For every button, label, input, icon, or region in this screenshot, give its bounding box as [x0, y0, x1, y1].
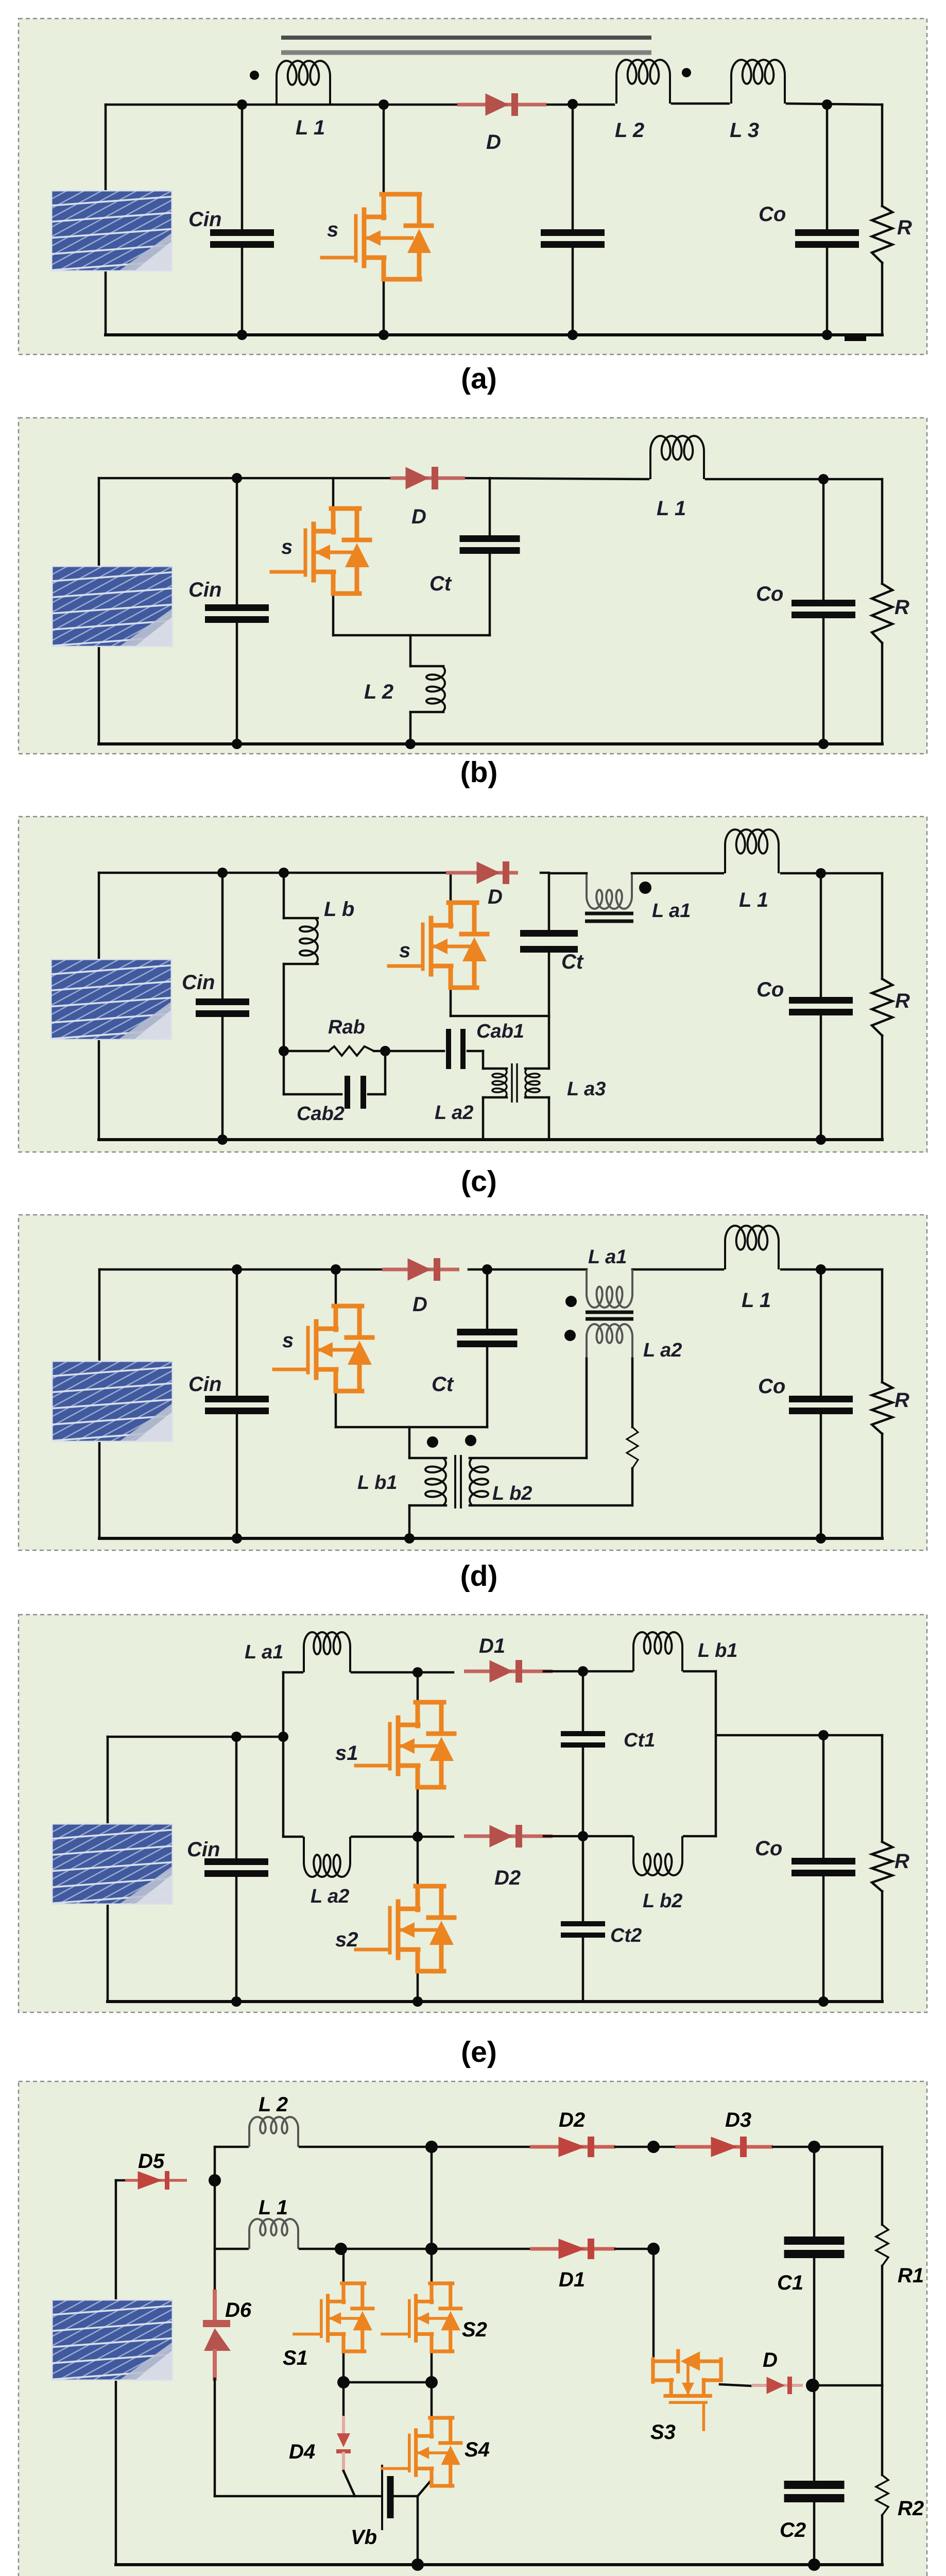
inductor Lb (c) — [300, 918, 318, 964]
wire right rail upper (a) — [881, 105, 884, 206]
wire La1-to-L1 (c) — [632, 872, 723, 875]
coupling dot Lb1 (d) — [427, 1436, 438, 1448]
inductor L3 (a) — [731, 60, 785, 104]
wire left rail (f) — [115, 2180, 117, 2565]
resistor R (b) — [872, 584, 892, 643]
node Co bottom (a) — [822, 330, 832, 340]
node D5 out (f) — [209, 2174, 221, 2187]
node Co top (a) — [822, 99, 832, 110]
wire output rail (e) — [716, 1734, 882, 1737]
diode D1 (e) — [464, 1670, 553, 1673]
node Rab right (c) — [380, 1046, 390, 1056]
wire mosfet source horizontal (c) — [451, 1015, 549, 1018]
node S2 top (f) — [425, 2243, 438, 2255]
transformer La2 leads (c) — [483, 1067, 507, 1070]
inductor La2 lead (e) — [283, 1836, 302, 1838]
wire La2-to-node (e) — [352, 1836, 453, 1838]
capacitor Ct1 (e) — [561, 1731, 605, 1736]
capacitor Co branch wires (d) — [820, 1269, 822, 1396]
svg-text:R: R — [895, 1389, 909, 1412]
wire L1-to-right (d) — [781, 1268, 882, 1271]
svg-text:s2: s2 — [335, 1928, 358, 1951]
svg-text:D4: D4 — [289, 2441, 315, 2463]
PV panel (b) — [0, 556, 354, 662]
svg-text:R: R — [895, 990, 910, 1012]
inductor L2 lead left (f) — [215, 2146, 248, 2148]
wire S2 drain vertical (f) — [431, 2147, 433, 2249]
svg-text:Co: Co — [759, 203, 786, 226]
svg-text:D2: D2 — [559, 2109, 585, 2131]
mosfet S (d) — [274, 1306, 372, 1391]
svg-text:L 1: L 1 — [259, 2196, 288, 2219]
PV panel (f) — [0, 2290, 354, 2396]
transformer Lb1 leads (d) — [408, 1427, 411, 1458]
mosfet S branch wires (a) — [383, 105, 385, 196]
svg-text:C1: C1 — [777, 2272, 803, 2294]
svg-text:Co: Co — [758, 1375, 785, 1398]
wire right rail top (f) — [881, 2147, 884, 2225]
svg-text:D3: D3 — [725, 2109, 751, 2131]
node L2 bottom (b) — [405, 739, 416, 749]
node Cin bottom (a) — [237, 330, 247, 340]
panel (b) background box — [19, 418, 927, 754]
capacitor Ct1 wires (e) — [582, 1671, 584, 1731]
wire right rail mid2 (f) — [881, 2385, 884, 2475]
wire bottom rail (a) — [106, 333, 882, 336]
svg-text:L 1: L 1 — [739, 889, 768, 911]
transformer coil La1 (d) — [587, 1269, 632, 1308]
capacitor Cin (c) — [196, 998, 249, 1005]
svg-text:D5: D5 — [138, 2150, 165, 2173]
capacitor Co (c) — [789, 997, 853, 1004]
svg-text:s: s — [399, 939, 410, 962]
svg-text:s: s — [327, 218, 338, 241]
svg-text:D: D — [488, 886, 503, 908]
node mosfet top (d) — [331, 1264, 341, 1275]
node Cin top (d) — [232, 1264, 242, 1275]
coupling dot La2 (d) — [564, 1330, 576, 1341]
wire C1 branch upper (f) — [813, 2147, 816, 2236]
node s1 drain (e) — [412, 1667, 423, 1677]
node Cin bottom (e) — [231, 1996, 242, 2007]
svg-text:L a1: L a1 — [245, 1641, 283, 1663]
inductor L2 wires (b) — [409, 635, 412, 666]
capacitor Ct branch wires (b) — [489, 478, 491, 536]
wire aux resistor to Lb2 bottom (d) — [631, 1468, 634, 1505]
node Cin bottom (c) — [217, 1134, 228, 1145]
capacitor Cab2 (c) — [345, 1076, 350, 1109]
wire battery-to-bottom vertical (f) — [417, 2496, 419, 2565]
wire top rail (a) — [106, 104, 459, 106]
svg-text:R1: R1 — [898, 2264, 924, 2287]
wire mosfet source bottom (b) — [333, 634, 490, 637]
svg-text:D: D — [763, 2349, 778, 2371]
node S2 source (f) — [425, 2376, 438, 2388]
svg-text:Ct1: Ct1 — [624, 1730, 655, 1751]
transformer coil La1 (c) — [587, 874, 632, 909]
wire diode-to-Ct (d) — [469, 1268, 487, 1271]
node Co top (b) — [818, 474, 829, 484]
inductor La2 (e) — [304, 1837, 350, 1877]
inductor L2 (a) — [616, 60, 670, 104]
node Ct top (d) — [482, 1264, 492, 1275]
svg-text:Vb: Vb — [351, 2526, 377, 2549]
capacitor Ct branch wires (d) — [486, 1269, 489, 1329]
inductor L2 (b) — [426, 666, 445, 712]
wire D6-to-bottom (f) — [214, 2379, 216, 2496]
capacitor Co branch wires (a) — [826, 105, 829, 230]
svg-text:S3: S3 — [650, 2421, 676, 2444]
svg-text:R: R — [895, 1850, 909, 1873]
wire bottom horizontal to battery (f) — [215, 2495, 381, 2498]
PV panel (c) — [0, 949, 353, 1055]
wire S3 out (f) — [720, 2384, 751, 2386]
node Cin top (a) — [237, 99, 247, 110]
svg-text:S1: S1 — [283, 2347, 308, 2369]
svg-text:Ct: Ct — [432, 1373, 454, 1396]
mosfet s1 (e) — [356, 1702, 454, 1787]
svg-text:Cin: Cin — [188, 1373, 221, 1396]
wire C2 branch lower (f) — [813, 2500, 816, 2565]
inductor Lb1 (e) — [633, 1632, 682, 1671]
node middle cap top (a) — [567, 99, 578, 109]
mosfet S branch wires (d) — [335, 1269, 337, 1308]
capacitor Ct2 wires (e) — [582, 1836, 584, 1921]
node Cin top (b) — [232, 473, 242, 483]
polarity mark (a) — [845, 336, 866, 341]
svg-text:R2: R2 — [898, 2497, 924, 2520]
wire right rail upper (e) — [881, 1735, 884, 1842]
wire D4 to battery junction (f) — [343, 2471, 355, 2496]
panel (f) background box — [19, 2081, 927, 2576]
svg-text:L b2: L b2 — [492, 1483, 532, 1504]
node s2 source (e) — [412, 1996, 423, 2007]
wire top rail left (b) — [99, 477, 393, 480]
wire right rail mid (f) — [881, 2266, 884, 2385]
wire L2-to-D2 (f) — [300, 2146, 530, 2148]
node middle cap bottom (a) — [567, 330, 578, 340]
capacitor Co (b) — [792, 600, 855, 606]
wire right rail lower (b) — [881, 643, 884, 744]
inductor L1 (b) — [650, 436, 704, 479]
wire D1 out (f) — [615, 2248, 653, 2250]
PV panel (e) — [0, 1814, 354, 1920]
mosfet S branch wires (b) — [332, 478, 335, 510]
wire right rail upper (b) — [881, 479, 884, 584]
wire Ct-to-La3 vertical (c) — [548, 1016, 551, 1069]
capacitor Cab1 wires (c) — [385, 1050, 444, 1053]
svg-text:Rab: Rab — [328, 1016, 365, 1038]
wire diode-to-L2 (a) — [547, 104, 614, 106]
wire Ct-to-La1 (c) — [549, 872, 587, 875]
svg-text:(e): (e) — [461, 2036, 497, 2069]
mosfet S1 (f) — [294, 2283, 373, 2351]
capacitor Cab1 (c) — [446, 1029, 451, 1069]
capacitor Co (a) — [795, 229, 859, 236]
node Cin bottom (d) — [232, 1533, 242, 1544]
svg-text:L a2: L a2 — [311, 1886, 349, 1907]
wire S3 input vertical (f) — [652, 2249, 655, 2356]
capacitor Cin (b) — [205, 604, 269, 611]
mosfet S4 wires (f) — [431, 2382, 433, 2419]
wire right rail lower (a) — [881, 263, 884, 335]
node Co bottom (b) — [818, 739, 829, 749]
wire C2 branch upper (f) — [813, 2385, 816, 2481]
wire diode-to-L1 (b) — [466, 478, 648, 479]
capacitor Cab2 loop wires (c) — [283, 1051, 285, 1094]
capacitor C2 (f) — [784, 2481, 845, 2489]
svg-text:R: R — [897, 216, 912, 239]
wire Lb1-to-corner (e) — [684, 1670, 716, 1673]
node Cin top (c) — [217, 868, 228, 878]
capacitor Ct (d) — [457, 1329, 518, 1335]
wire bottom rail (c) — [99, 1138, 882, 1141]
wire mosfet source horizontal (d) — [336, 1426, 487, 1429]
wire L2-to-L3 (a) — [672, 103, 729, 105]
wire L1-to-right (c) — [781, 872, 882, 875]
transformer coil La2 (d) — [587, 1324, 632, 1359]
diode D (b) — [390, 477, 465, 480]
svg-text:D: D — [411, 505, 426, 528]
mosfet s1 wires (e) — [417, 1672, 419, 1704]
node Co bottom (d) — [816, 1533, 826, 1544]
panel (a) background box — [19, 19, 927, 354]
aux resistor (d) — [627, 1427, 638, 1468]
svg-text:D6: D6 — [225, 2299, 252, 2321]
diode D4 (f) — [337, 2433, 350, 2447]
svg-text:D2: D2 — [494, 1867, 521, 1889]
svg-text:(c): (c) — [461, 1165, 497, 1198]
mosfet S branch wires (c) — [450, 873, 452, 904]
wire D5node down (f) — [214, 2180, 216, 2292]
diode D6 (f) — [203, 2320, 230, 2327]
wire bottom rail (f) — [116, 2563, 882, 2566]
svg-text:L 2: L 2 — [364, 681, 393, 703]
svg-text:s: s — [282, 1329, 294, 1352]
wire left rail (c) — [98, 873, 100, 1140]
inductor L1 (a) — [277, 61, 330, 105]
coupling dot La1 (d) — [565, 1296, 577, 1307]
node Rab left (c) — [279, 1046, 289, 1056]
svg-text:s1: s1 — [335, 1742, 358, 1765]
middle capacitor branch wires (a) — [572, 105, 574, 230]
transformer coil Lb2 (d) — [470, 1458, 488, 1505]
node Co bottom (e) — [818, 1996, 829, 2007]
svg-text:L 3: L 3 — [730, 119, 759, 142]
capacitor Co (d) — [789, 1396, 853, 1402]
wire La2 right lead (d) — [631, 1359, 634, 1427]
wire right rail lower (c) — [881, 1036, 884, 1140]
svg-text:Co: Co — [756, 583, 783, 605]
node C1 top (f) — [808, 2141, 820, 2153]
wire La1-to-L1 (d) — [632, 1268, 723, 1271]
svg-text:(d): (d) — [460, 1560, 498, 1592]
wire left rail (b) — [98, 478, 100, 744]
diode D (a) — [457, 103, 546, 107]
wire left rail (e) — [107, 1737, 109, 2002]
panel (d) background box — [19, 1215, 927, 1550]
node Co bottom (c) — [816, 1134, 826, 1145]
coupling dot La1 (c) — [639, 882, 651, 894]
inductor La1 lead (e) — [283, 1671, 302, 1674]
wire top rail (d) — [99, 1268, 386, 1271]
wire bottom rail (e) — [108, 2000, 882, 2003]
capacitor Co branch wires (e) — [822, 1735, 825, 1858]
capacitor Cin branch wires (b) — [236, 478, 238, 605]
node Ct1 top (e) — [578, 1666, 588, 1676]
mosfet S (a) — [322, 194, 432, 279]
svg-text:L b1: L b1 — [357, 1472, 397, 1494]
capacitor Ct (c) — [520, 930, 578, 937]
node Co top (d) — [816, 1264, 826, 1275]
capacitor Ct (b) — [460, 535, 520, 542]
node s1 source (e) — [412, 1832, 423, 1842]
svg-text:L b: L b — [324, 898, 354, 921]
capacitor Co branch wires (c) — [820, 873, 822, 997]
wire D3-to-right (f) — [773, 2146, 882, 2148]
inductor Lb2 (e) — [633, 1836, 682, 1875]
node Cin bottom (b) — [232, 739, 242, 749]
diode D1 (f) — [530, 2247, 615, 2251]
node D1 out (f) — [647, 2243, 660, 2255]
svg-text:Co: Co — [755, 1837, 782, 1860]
svg-text:Cab2: Cab2 — [297, 1103, 345, 1125]
node S1 source (f) — [337, 2376, 350, 2388]
wire C1 branch lower (f) — [813, 2256, 816, 2385]
node input split (e) — [278, 1732, 288, 1742]
mosfet S2 (f) — [382, 2283, 461, 2351]
capacitor Cin (d) — [205, 1396, 269, 1402]
svg-text:Cab1: Cab1 — [476, 1021, 524, 1042]
wire Lb2-to-corner (e) — [684, 1835, 716, 1838]
wire D1-to-Ct1 (e) — [544, 1670, 583, 1673]
inductor Lb wires (c) — [283, 873, 285, 918]
wire left rail (d) — [98, 1269, 101, 1538]
wire L1-to-D1 (f) — [300, 2248, 530, 2250]
node D2 out (f) — [647, 2141, 660, 2153]
wire La1-to-node (e) — [352, 1671, 453, 1674]
svg-text:S4: S4 — [465, 2438, 490, 2461]
transformer La3 leads (c) — [525, 1067, 549, 1070]
diode D (d) — [382, 1268, 459, 1272]
transformer coil La2 (c) — [492, 1069, 507, 1097]
wire battery to S4 diagonal (f) — [418, 2479, 432, 2496]
inductor La1 (e) — [304, 1632, 350, 1672]
node Co top (e) — [818, 1730, 829, 1740]
core bars La1 (c) — [585, 912, 633, 916]
diode D (c) — [446, 871, 518, 875]
capacitor C1 (f) — [784, 2236, 845, 2245]
node mosfet bottom (a) — [379, 330, 389, 340]
wire D2-to-Lb2 (e) — [544, 1835, 632, 1838]
svg-text:Cin: Cin — [188, 208, 221, 231]
svg-text:Co: Co — [756, 978, 784, 1001]
core bars La1-La2 (d) — [586, 1311, 633, 1314]
transformer Lb2 leads (d) — [470, 1457, 587, 1460]
wire bottom rail (b) — [99, 742, 882, 745]
wire mid to right rail (f) — [814, 2384, 882, 2387]
resistor R (c) — [872, 979, 892, 1036]
PV panel (d) — [0, 1351, 354, 1457]
svg-text:L a1: L a1 — [588, 1246, 627, 1268]
wire diode-to-Ct (c) — [541, 872, 549, 874]
inductor L1 (c) — [725, 829, 779, 873]
node Lb1 bottom (d) — [404, 1533, 415, 1544]
diode D5 (f) — [125, 2179, 187, 2182]
svg-text:L a2: L a2 — [435, 1102, 473, 1124]
svg-text:L 2: L 2 — [259, 2093, 288, 2116]
node S1 top (f) — [335, 2243, 347, 2255]
resistor R (a) — [872, 206, 892, 263]
svg-text:(b): (b) — [460, 756, 498, 789]
svg-text:Ct2: Ct2 — [610, 1925, 642, 1946]
inductor L2 (f) — [249, 2117, 298, 2147]
inductor L1 (d) — [725, 1226, 779, 1269]
diode D4 lead lower (f) — [342, 2453, 345, 2471]
wire Ct1-to-Lb1 (e) — [583, 1670, 632, 1673]
mosfet s2 (e) — [356, 1886, 454, 1971]
panel (e) background box — [19, 1615, 927, 2012]
resistor R (e) — [872, 1842, 892, 1891]
svg-text:L b1: L b1 — [698, 1640, 737, 1662]
svg-text:L 1: L 1 — [742, 1289, 771, 1312]
wire La2 left to Lb2 (d) — [586, 1359, 588, 1458]
resistor Rab wires (c) — [284, 1050, 329, 1053]
capacitor Co (e) — [792, 1858, 855, 1865]
svg-text:C2: C2 — [780, 2519, 806, 2541]
svg-text:L 1: L 1 — [657, 497, 686, 520]
mosfet s2 wires (e) — [417, 1837, 419, 1888]
resistor Rab (c) — [329, 1046, 374, 1056]
wire right rail upper (c) — [881, 873, 884, 979]
diode D6 lead upper (f) — [213, 2292, 217, 2320]
mosfet S1 wires (f) — [342, 2249, 345, 2284]
mosfet S (c) — [389, 903, 487, 988]
diode D5 wire (f) — [116, 2179, 126, 2182]
svg-text:L 2: L 2 — [615, 119, 644, 142]
wire right rail lower (e) — [881, 1891, 884, 2002]
inductor L1 (f) — [249, 2219, 298, 2249]
capacitor Cin branch wires (d) — [236, 1269, 238, 1396]
node D out (f) — [806, 2379, 819, 2392]
wire input split vertical (e) — [282, 1672, 285, 1837]
svg-text:R: R — [895, 596, 909, 619]
wire L3-to-right (a) — [787, 104, 882, 105]
capacitor Co branch wires (b) — [822, 479, 825, 600]
diode D2 (e) — [464, 1835, 553, 1838]
svg-text:Ct: Ct — [561, 951, 584, 973]
svg-text:D1: D1 — [559, 2268, 585, 2291]
mosfet S3 (f) — [653, 2351, 721, 2430]
diode D (f) — [751, 2384, 803, 2387]
diode D6 lead lower (f) — [213, 2351, 217, 2379]
wire S1-S2 source link (f) — [343, 2381, 432, 2384]
svg-text:Cin: Cin — [182, 971, 215, 994]
capacitor Cin branch wires (a) — [241, 105, 244, 230]
svg-text:Cin: Cin — [187, 1838, 220, 1861]
svg-text:L b2: L b2 — [643, 1890, 682, 1912]
wire D2-to-D3 (f) — [615, 2146, 675, 2148]
node mosfet top (a) — [379, 99, 389, 110]
transformer coil Lb1 (d) — [425, 1458, 446, 1505]
diode D4 wires (f) — [342, 2382, 345, 2417]
node Cin top (e) — [231, 1732, 242, 1742]
svg-text:D: D — [486, 131, 501, 154]
capacitor Ct2 (e) — [561, 1921, 605, 1926]
capacitor Ct branch wires (c) — [548, 873, 551, 930]
node Co top (c) — [816, 868, 826, 878]
coupling dot L1 (a) — [250, 71, 259, 80]
